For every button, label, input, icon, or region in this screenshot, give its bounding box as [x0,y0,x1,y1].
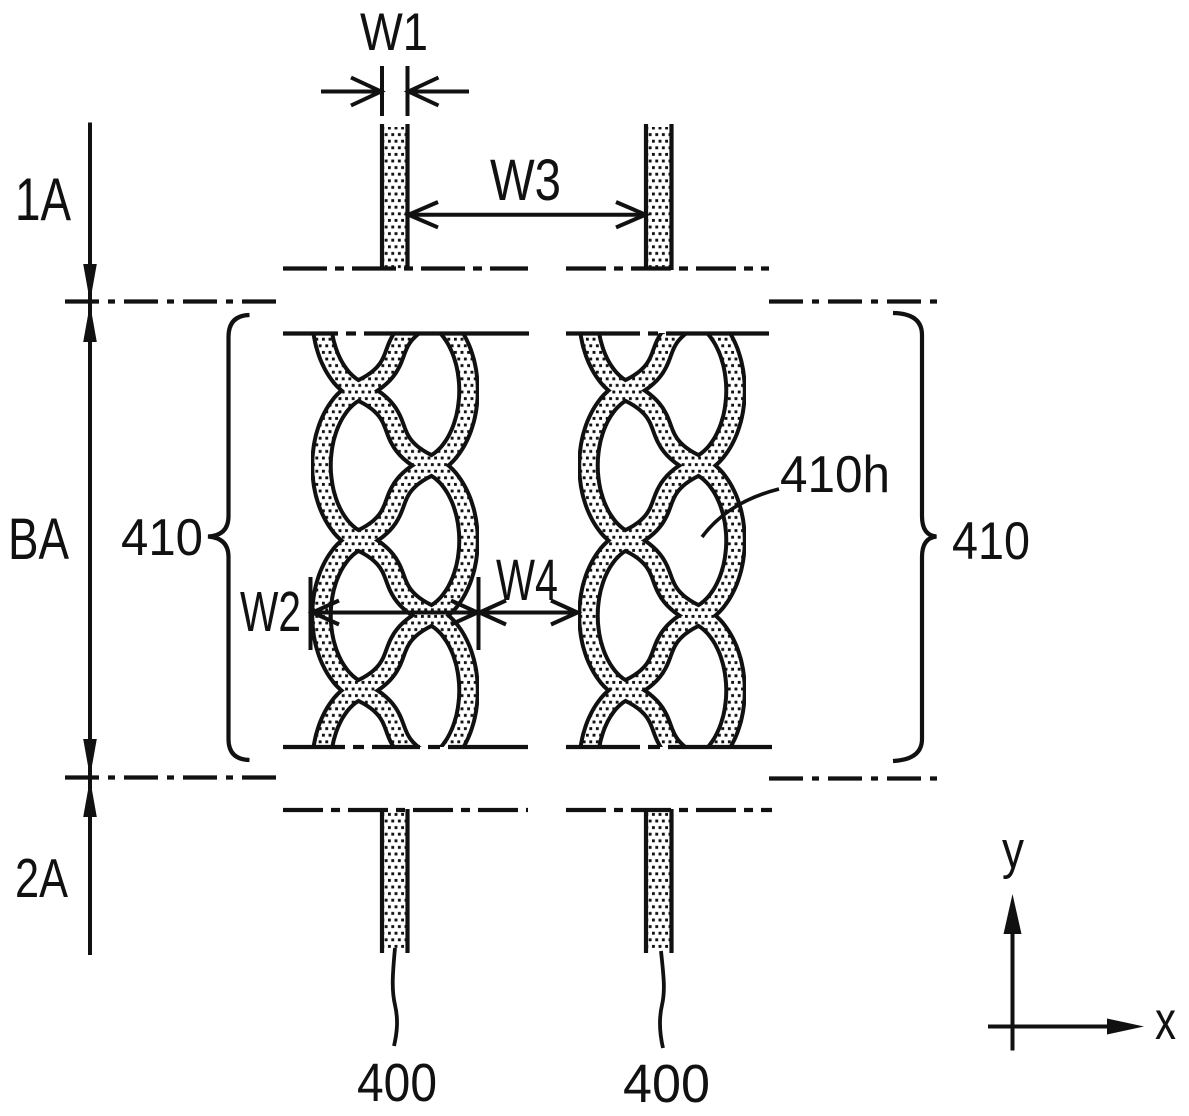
boundary line 2A bottom bars baseline [283,808,528,812]
wire 400 bottom-right bar [646,809,672,953]
svg-text:410h: 410h [780,446,890,504]
leader line 400 right [660,951,664,1048]
svg-text:2A: 2A [15,847,68,909]
boundary line 1A/BA top bars baseline [283,266,528,270]
svg-text:W3: W3 [490,148,561,213]
wire 400 bottom-left bar [382,809,408,953]
leader line 410h [702,489,779,537]
W1 right arrow [409,78,470,106]
W1 left arrow [321,78,381,106]
y-axis [1011,930,1015,1051]
svg-text:410: 410 [121,509,203,567]
svg-text:x: x [1155,991,1176,1051]
W2 dimension arrow [312,601,478,625]
leader line 400 left [393,948,397,1046]
svg-text:1A: 1A [15,166,71,233]
mesh top boundary line [283,331,769,335]
W4 dimension arrow [480,601,578,625]
svg-text:BA: BA [8,507,69,572]
svg-text:410: 410 [952,512,1030,571]
boundary dash-dot line 1A/BA right [769,299,943,303]
region extent line 1A/BA/2A [88,123,92,956]
mesh wiring 410 left strip [322,320,469,758]
W1 dimension ticks [380,66,384,116]
arrowhead up below BA/2A [83,779,97,817]
svg-text:400: 400 [623,1054,710,1114]
svg-text:400: 400 [357,1053,437,1113]
W3 dimension arrow [409,202,646,227]
boundary dash-dot line BA/2A right [769,776,944,780]
svg-text:W4: W4 [496,548,558,613]
arrowhead down at 1A/BA [83,264,97,302]
svg-text:W1: W1 [360,3,428,62]
wire 400 top-left bar [382,124,408,270]
W2 dimension ticks [309,577,313,650]
svg-text:W2: W2 [240,580,301,644]
curly brace 410 left [208,315,250,760]
curly brace 410 right [893,313,937,761]
mesh bottom boundary line [283,745,772,749]
coordinate axes [988,821,1176,1051]
boundary dash-dot line 1A/BA left [65,299,284,303]
arrowhead down at BA/2A [83,739,97,777]
arrowhead up below 1A/BA [83,304,97,342]
svg-text:y: y [1002,821,1024,880]
boundary dash-dot line BA/2A left [65,775,284,779]
wire 400 top-right bar [646,124,672,270]
x-axis [988,1025,1110,1029]
mesh wiring 410 right strip [589,320,736,758]
